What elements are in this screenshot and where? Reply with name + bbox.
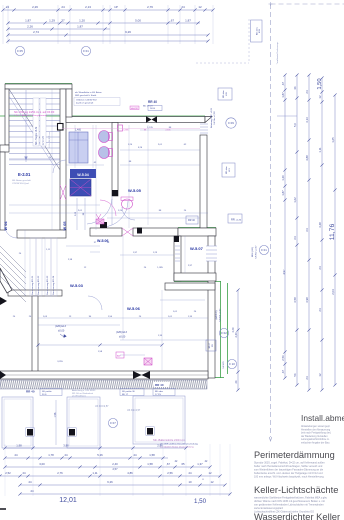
svg-text:56: 56 [293,373,297,377]
svg-text:,24: ,24 [5,5,10,9]
svg-text:RR 40: RR 40 [188,219,195,222]
svg-text:12: 12 [318,373,322,377]
svg-text:64: 64 [293,236,297,240]
svg-text:2,86: 2,86 [157,443,163,447]
svg-text:Stb.-Balkonstütze 24/24 cm,: Stb.-Balkonstütze 24/24 cm, [153,438,186,442]
svg-text:37: 37 [61,18,65,22]
svg-text:UK KO=2,57: UK KO=2,57 [95,405,109,408]
svg-text:3,48: 3,48 [318,222,322,228]
svg-text:(A/B) E13: (A/B) E13 [55,325,66,328]
svg-text:1,87: 1,87 [25,18,31,22]
svg-text:1,87: 1,87 [281,190,285,196]
svg-text:1,58: 1,58 [149,453,155,457]
svg-text:2,40: 2,40 [232,327,235,332]
svg-text:entlochter Angabe der Bau.: entlochter Angabe der Bau. [301,442,330,445]
svg-text:41S: 41S [229,168,231,172]
svg-text:,67: ,67 [170,18,175,22]
svg-text:F 09: F 09 [228,121,234,125]
svg-text:65: 65 [181,462,185,466]
svg-text:24: 24 [318,266,322,270]
svg-text:17 DV: 17 DV [155,394,162,396]
svg-text:36: 36 [293,86,297,90]
svg-text:1,29: 1,29 [49,18,55,22]
svg-text:1,135: 1,135 [147,127,153,129]
svg-text:(A/B) E13: (A/B) E13 [116,331,127,334]
svg-text:BD abw.: BD abw. [223,90,225,98]
svg-text:24: 24 [14,453,18,457]
svg-text:1,20: 1,20 [79,18,85,22]
svg-text:1,50: 1,50 [317,78,323,89]
svg-text:als WU-Wanne: als WU-Wanne [72,396,87,398]
svg-text:E-2.01: E-2.01 [18,172,31,177]
svg-text:RR 40: RR 40 [155,383,164,387]
svg-text:2,26: 2,26 [32,5,38,9]
svg-text:24: 24 [28,480,32,484]
svg-text:Keller-Lichtschächte: Keller-Lichtschächte [254,484,338,495]
svg-text:5,26: 5,26 [97,453,103,457]
svg-text:100 mm anlegn. WU-Nachweis bau: 100 mm anlegn. WU-Nachweis bauphysik. na… [254,476,324,479]
svg-text:3,255: 3,255 [57,361,63,363]
svg-text:11,76: 11,76 [329,224,336,241]
svg-text:64: 64 [305,228,309,232]
svg-text:1,50: 1,50 [194,498,207,505]
svg-text:Abdichtung n. DIN 18533: Abdichtung n. DIN 18533 [72,389,96,392]
svg-text:1,98: 1,98 [16,443,22,447]
svg-text:24: 24 [133,453,137,457]
svg-text:4,97: 4,97 [282,269,286,275]
svg-text:Perimeterdämmung: Perimeterdämmung [254,450,335,460]
svg-text:2,57: 2,57 [112,467,118,471]
svg-text:W-5.03: W-5.03 [70,283,84,288]
svg-text:2,76: 2,76 [147,5,153,9]
svg-text:ab: Wandhöhe in KG Beton: ab: Wandhöhe in KG Beton [75,91,102,94]
svg-text:1,58: 1,58 [147,462,153,466]
svg-text:F 07: F 07 [110,421,116,425]
svg-text:24: 24 [64,453,68,457]
svg-text:W-5.04: W-5.04 [77,173,89,177]
svg-text:24: 24 [305,376,309,380]
svg-text:UK KS=2,57: UK KS=2,57 [127,409,141,412]
svg-text:17,9 / 27: 17,9 / 27 [43,135,45,145]
svg-text:BD abw.: BD abw. [226,166,228,174]
svg-text:Stb.-Öffnung 24/50 cm ü. auf O: Stb.-Öffnung 24/50 cm ü. auf OK RF [14,111,55,114]
svg-text:Lfl. b: 94,825 cm: Lfl. b: 94,825 cm [49,132,51,148]
svg-text:1,37: 1,37 [197,462,203,466]
svg-text:24: 24 [188,471,192,475]
svg-text:12,01: 12,01 [59,497,77,504]
svg-text:2,74: 2,74 [33,30,39,34]
svg-text:1,87: 1,87 [281,92,285,98]
svg-text:Wasserdichter Keller: Wasserdichter Keller [254,511,340,520]
svg-text:abst.90: abst.90 [131,107,138,110]
svg-text:Ortbeton C25/30 WU: Ortbeton C25/30 WU [76,99,97,102]
svg-text:9,26: 9,26 [125,30,131,34]
svg-text:12: 12 [208,471,212,475]
svg-text:SD perlite 30: SD perlite 30 [122,390,135,393]
svg-text:40S: 40S [226,92,228,96]
svg-text:,67: ,67 [281,370,285,374]
svg-text:2,635: 2,635 [165,130,171,132]
svg-text:24: 24 [318,308,322,312]
svg-text:BD 17: BD 17 [122,394,129,396]
svg-text:1,58: 1,58 [54,412,57,417]
svg-text:±0,00: ±0,00 [119,336,126,339]
svg-text:2,04: 2,04 [331,289,335,295]
svg-text:1,385: 1,385 [123,130,129,132]
svg-text:1,20: 1,20 [281,175,285,181]
svg-text:UK KS +2,57: UK KS +2,57 [220,308,222,321]
svg-text:5,0: 5,0 [293,123,297,127]
svg-text:1,385: 1,385 [157,267,163,269]
svg-text:24: 24 [30,489,34,493]
svg-text:W-5.07: W-5.07 [190,246,204,251]
svg-text:1P: 1P [114,5,118,9]
svg-text:f. Zu- u. Abluft n. Lüftungsko: f. Zu- u. Abluft n. Lüftungskonzept [14,114,47,117]
svg-text:Install.abmessu: Install.abmessu [301,413,344,423]
svg-text:Sommerweg KG-03: Sommerweg KG-03 [46,275,49,295]
svg-text:,67: ,67 [281,82,285,86]
svg-text:Sommerweg KG-02: Sommerweg KG-02 [37,275,40,295]
svg-text:24: 24 [305,90,309,94]
svg-text:1,62: 1,62 [293,197,297,203]
svg-text:2,56: 2,56 [281,355,285,361]
svg-text:40S: 40S [259,29,261,33]
svg-text:30 S: 30 S [42,394,47,396]
svg-text:W-5.05: W-5.05 [128,188,142,193]
svg-text:SB: Beton geschalt: SB: Beton geschalt [12,179,31,182]
svg-text:C25/30 WU-Qual.: C25/30 WU-Qual. [12,183,30,185]
svg-text:1,78: 1,78 [48,453,54,457]
svg-text:1,87: 1,87 [185,18,191,22]
svg-text:Sommerweg KG-04: Sommerweg KG-04 [52,275,55,295]
svg-text:SB2 geschalt lt. Statik: SB2 geschalt lt. Statik [75,94,97,97]
svg-text:24: 24 [22,471,26,475]
svg-text:W 05: W 05 [63,222,67,231]
svg-text:3,86: 3,86 [63,443,69,447]
svg-text:1,65: 1,65 [331,137,335,143]
svg-text:Traufkante Dachvorspr.: Traufkante Dachvorspr. [276,41,279,64]
svg-text:W 04: W 04 [4,221,8,231]
svg-text:2,26: 2,26 [27,25,33,29]
svg-text:24: 24 [181,5,185,9]
svg-text:d=24 cm geschalt: d=24 cm geschalt [76,102,94,105]
svg-text:BD 17 DV: BD 17 DV [143,106,153,108]
svg-text:UK KO: UK KO [223,361,225,368]
svg-text:2,13: 2,13 [85,5,91,9]
svg-text:±0,00: ±0,00 [58,330,65,333]
svg-text:BD 17: BD 17 [209,342,211,348]
svg-text:F 01: F 01 [261,248,267,252]
svg-text:24/50: 24/50 [150,108,156,110]
svg-text:3,98: 3,98 [305,297,309,303]
svg-text:24: 24 [61,5,65,9]
svg-text:3,00: 3,00 [39,462,45,466]
svg-text:RR 40: RR 40 [148,100,157,104]
svg-text:Stb.-Treppe 16-St: Stb.-Treppe 16-St [35,126,38,145]
svg-text:12: 12 [210,480,214,484]
svg-text:1,87: 1,87 [77,25,83,29]
svg-text:BRH (UG): BRH (UG) [252,247,254,257]
svg-text:F 10: F 10 [229,362,235,366]
svg-text:2,76: 2,76 [57,471,63,475]
svg-text:4,88: 4,88 [305,155,309,161]
svg-text:W-5.06: W-5.06 [127,306,141,311]
svg-text:UK KO +2,57: UK KO +2,57 [256,245,258,259]
svg-text:1,11: 1,11 [318,147,322,153]
svg-text:Sommerweg KG-01: Sommerweg KG-01 [31,275,34,295]
svg-text:1,485: 1,485 [75,129,82,132]
svg-text:3,58: 3,58 [293,297,297,303]
svg-text:RR: RR [231,218,235,222]
svg-text:+0,30: +0,30 [236,220,242,222]
svg-text:4,86: 4,86 [127,471,133,475]
svg-text:,67: ,67 [166,462,170,466]
svg-text:F 05: F 05 [17,49,23,53]
svg-text:5,00: 5,00 [135,18,141,22]
svg-text:2,52: 2,52 [5,471,11,475]
svg-text:SD perlite: SD perlite [42,390,52,393]
svg-text:12: 12 [318,95,322,99]
svg-text:1,11: 1,11 [92,471,98,475]
svg-text:12: 12 [198,5,202,9]
svg-text:F 02: F 02 [221,331,227,335]
svg-text:(A/K/UG): (A/K/UG) [215,310,218,319]
svg-text:6,26: 6,26 [107,480,113,484]
svg-text:BD abw.: BD abw. [155,391,164,393]
svg-text:W2.1-E auf Sauberkeit: W2.1-E auf Sauberkeit [72,392,93,395]
svg-text:F 01: F 01 [83,49,89,53]
svg-text:RR 40: RR 40 [26,390,35,394]
svg-text:3,13: 3,13 [305,117,309,123]
svg-text:Brüstung OKF +2,05: Brüstung OKF +2,05 [210,107,213,128]
svg-text:2,40: 2,40 [112,462,118,466]
svg-text:UK Stz +2,38: UK Stz +2,38 [213,111,216,125]
svg-text:2,56: 2,56 [167,471,173,475]
svg-text:10: 10 [188,480,192,484]
